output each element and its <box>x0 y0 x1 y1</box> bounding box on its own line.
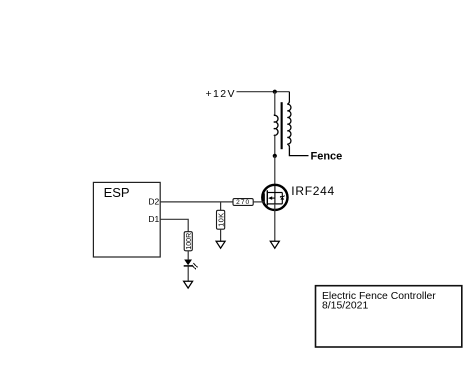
wire D2 to gate resistor <box>160 201 233 203</box>
node junction bottom of primary <box>273 154 277 158</box>
wire 100R to LED <box>187 251 189 260</box>
node junction top (12V / primary / secondary) <box>273 90 277 94</box>
wire secondary bottom to Fence <box>289 147 308 155</box>
wire primary bottom <box>274 135 276 156</box>
wire primary top <box>274 92 276 115</box>
svg-text:D1: D1 <box>148 214 159 224</box>
svg-text:Fence: Fence <box>311 151 343 163</box>
LED cathode bar <box>184 265 193 267</box>
wire drain <box>274 156 276 193</box>
wire 10K to ground <box>220 229 222 241</box>
svg-text:IRF244: IRF244 <box>291 184 335 198</box>
transistor Q1 drain stub <box>267 192 282 194</box>
title block frame <box>316 286 462 347</box>
transformer T1 secondary winding <box>287 101 291 147</box>
transistor Q1 channel <box>266 190 268 205</box>
transistor Q1 body diode <box>281 193 283 204</box>
wire +12V rail <box>237 91 290 93</box>
transistor Q1 IRF244 N-MOSFET body circle <box>262 185 287 210</box>
IC U1 ESP box <box>93 182 160 257</box>
ground under LED <box>184 281 193 288</box>
wire tee to 10K <box>220 202 222 211</box>
svg-text:8/15/2021: 8/15/2021 <box>322 301 368 312</box>
transformer core <box>281 102 283 149</box>
wire LED to ground <box>187 266 189 281</box>
ground under MOSFET <box>270 241 279 248</box>
svg-text:D2: D2 <box>148 197 159 207</box>
ground under 10K <box>216 241 225 248</box>
transistor Q1 bulk arrow <box>271 197 275 199</box>
svg-text:100R: 100R <box>186 233 193 250</box>
transistor Q1 gate plate <box>263 193 265 204</box>
svg-text:10K: 10K <box>216 213 225 227</box>
resistor 270 (gate) <box>233 199 253 207</box>
svg-text:+12V: +12V <box>206 88 236 100</box>
wire 270 to gate <box>253 201 264 203</box>
transistor Q1 source stub <box>267 203 282 205</box>
LED D1 (anode triangle) <box>184 260 192 266</box>
transistor Q1 drain internal vertical <box>274 185 276 204</box>
LED emission arrows <box>193 263 195 266</box>
resistor 10K (pulldown) <box>216 210 225 229</box>
svg-text:270: 270 <box>236 199 250 206</box>
resistor 100R (LED series) <box>184 232 193 251</box>
wire source to ground <box>274 204 276 241</box>
wire D1 to 100R <box>160 219 188 231</box>
wire secondary top lead <box>288 92 290 101</box>
transformer T1 primary winding <box>274 115 278 136</box>
svg-text:ESP: ESP <box>104 185 130 200</box>
